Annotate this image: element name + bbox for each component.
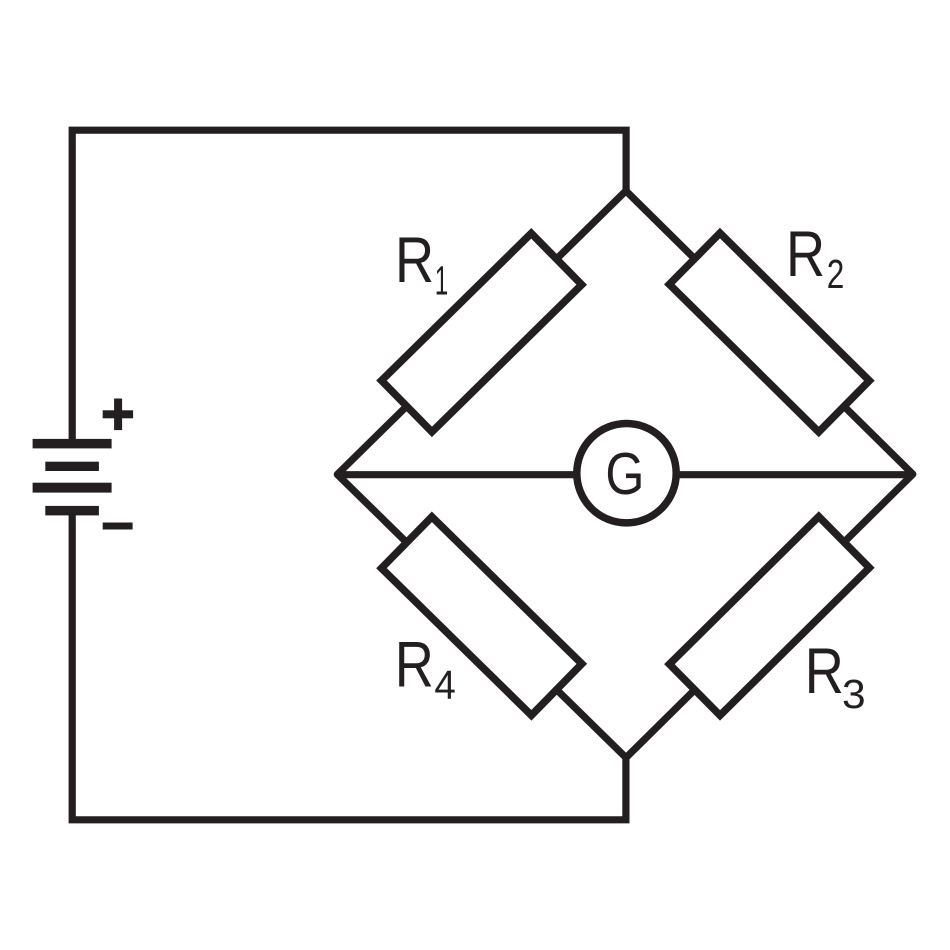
svg-text:4: 4 — [434, 663, 455, 708]
svg-text:R: R — [395, 223, 434, 296]
svg-text:2: 2 — [827, 251, 845, 297]
svg-text:R: R — [395, 628, 434, 701]
svg-text:G: G — [605, 440, 644, 507]
svg-text:R: R — [786, 217, 825, 290]
svg-text:R: R — [805, 634, 844, 707]
svg-text:3: 3 — [842, 671, 866, 717]
svg-text:1: 1 — [435, 259, 449, 304]
